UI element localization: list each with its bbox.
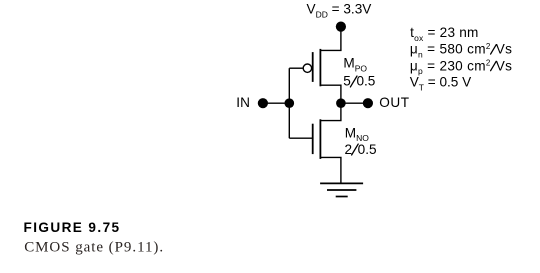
svg-text:50.5: 50.5 <box>343 74 375 89</box>
svg-text:IN: IN <box>236 95 250 110</box>
svg-text:20.5: 20.5 <box>345 142 377 157</box>
svg-text:CMOS gate (P9.11).: CMOS gate (P9.11). <box>24 239 164 255</box>
svg-text:FIGURE 9.75: FIGURE 9.75 <box>24 220 121 235</box>
svg-text:OUT: OUT <box>379 95 409 110</box>
